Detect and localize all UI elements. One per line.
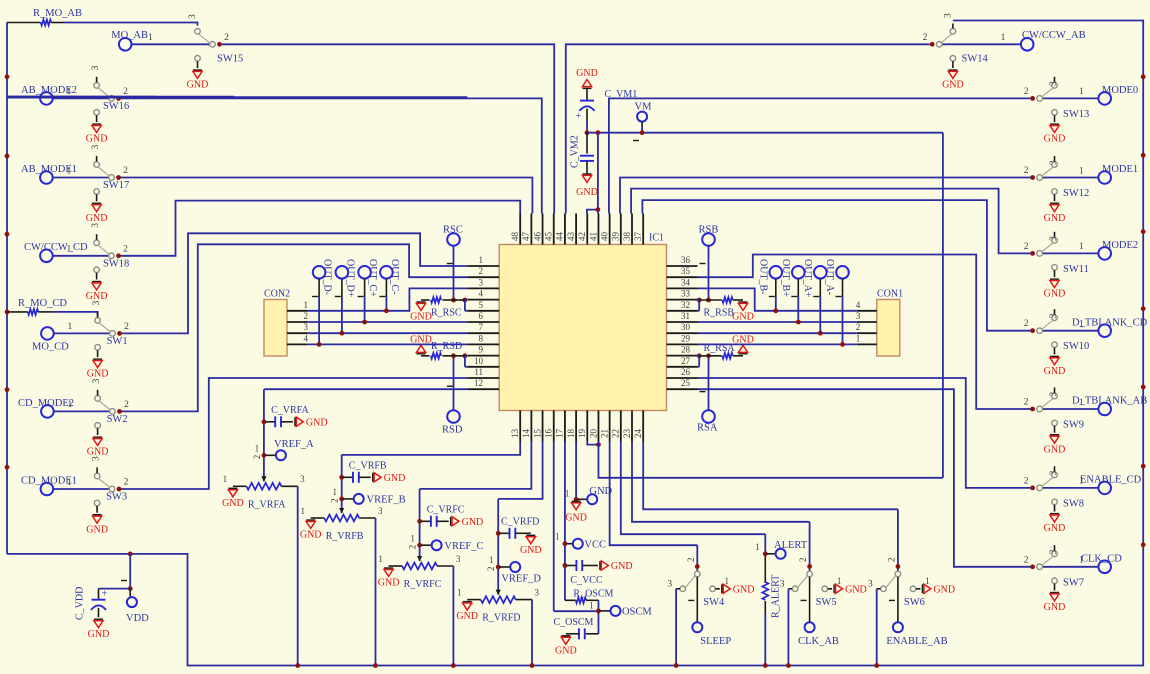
svg-text:D_TBLANK_AB: D_TBLANK_AB: [1072, 396, 1147, 407]
svg-text:1: 1: [489, 555, 494, 565]
svg-text:CON1: CON1: [877, 289, 903, 300]
svg-text:2: 2: [124, 478, 129, 488]
svg-text:VREF_B: VREF_B: [367, 495, 406, 506]
svg-text:1: 1: [755, 542, 760, 552]
svg-text:GND: GND: [576, 68, 598, 79]
svg-text:SW16: SW16: [103, 101, 129, 112]
svg-text:3: 3: [1049, 81, 1059, 86]
svg-text:SW11: SW11: [1063, 264, 1089, 275]
svg-text:2: 2: [123, 87, 128, 97]
svg-text:1: 1: [856, 333, 861, 343]
svg-text:9: 9: [479, 345, 484, 355]
svg-text:GND: GND: [88, 629, 110, 640]
svg-text:3: 3: [91, 65, 101, 70]
svg-text:2: 2: [886, 558, 896, 563]
svg-text:32: 32: [681, 300, 690, 310]
svg-text:1: 1: [565, 489, 570, 499]
svg-text:3: 3: [92, 456, 102, 461]
svg-text:GND: GND: [222, 498, 244, 509]
svg-text:+: +: [102, 588, 108, 599]
svg-text:10: 10: [474, 356, 484, 366]
svg-text:3: 3: [856, 311, 861, 321]
svg-text:2: 2: [304, 311, 309, 321]
svg-text:21: 21: [599, 429, 609, 438]
svg-text:2: 2: [123, 166, 128, 176]
svg-text:GND: GND: [520, 545, 542, 556]
svg-text:GND: GND: [555, 645, 577, 656]
svg-text:30: 30: [681, 322, 691, 332]
svg-text:GND: GND: [845, 584, 867, 595]
svg-text:GND: GND: [1044, 213, 1066, 224]
svg-text:2: 2: [1024, 476, 1029, 486]
svg-text:GND: GND: [87, 369, 109, 380]
svg-text:C_VRFD: C_VRFD: [501, 517, 539, 528]
svg-text:C_VCC: C_VCC: [570, 575, 603, 586]
svg-text:GND: GND: [1044, 366, 1066, 377]
svg-text:41: 41: [588, 232, 598, 241]
svg-text:2: 2: [1024, 87, 1029, 97]
svg-text:C_VM1: C_VM1: [605, 89, 638, 100]
svg-text:1: 1: [1079, 87, 1084, 97]
svg-text:GND: GND: [456, 611, 478, 622]
svg-text:GND: GND: [86, 291, 108, 302]
svg-text:2: 2: [123, 244, 128, 254]
svg-text:OUT_B+: OUT_B+: [780, 259, 791, 297]
svg-text:GND: GND: [87, 447, 109, 458]
svg-text:VM: VM: [635, 101, 653, 112]
svg-text:2: 2: [1024, 166, 1029, 176]
svg-text:R_VRFA: R_VRFA: [248, 499, 286, 510]
svg-text:CW/CCW_CD: CW/CCW_CD: [24, 242, 88, 253]
svg-text:1: 1: [304, 300, 309, 310]
svg-text:SW12: SW12: [1063, 188, 1089, 199]
svg-text:43: 43: [566, 232, 576, 242]
svg-text:3: 3: [1049, 470, 1059, 475]
svg-text:ALERT: ALERT: [774, 540, 808, 551]
svg-text:OUT_A+: OUT_A+: [802, 259, 813, 298]
svg-text:2: 2: [252, 455, 262, 460]
svg-text:GND: GND: [933, 584, 955, 595]
svg-text:SW15: SW15: [217, 54, 243, 65]
svg-text:SW4: SW4: [703, 597, 725, 608]
svg-text:1: 1: [555, 532, 560, 542]
svg-text:1: 1: [1001, 33, 1006, 43]
svg-text:12: 12: [474, 378, 483, 388]
svg-text:CD_MODE1: CD_MODE1: [21, 476, 77, 487]
svg-text:2: 2: [923, 33, 928, 43]
svg-text:SW18: SW18: [103, 258, 129, 269]
svg-text:OSCM: OSCM: [622, 607, 652, 618]
svg-text:R_VRFC: R_VRFC: [404, 579, 442, 590]
svg-text:VREF_D: VREF_D: [501, 574, 541, 585]
svg-text:3: 3: [1049, 313, 1059, 318]
svg-text:1: 1: [223, 474, 228, 484]
svg-text:VDD: VDD: [126, 613, 149, 624]
svg-text:23: 23: [622, 429, 632, 439]
svg-text:OUT_B-: OUT_B-: [757, 259, 768, 295]
svg-text:2: 2: [1024, 319, 1029, 329]
svg-text:3: 3: [534, 587, 539, 597]
svg-text:37: 37: [633, 232, 643, 242]
svg-text:GND: GND: [1044, 134, 1066, 145]
svg-text:GND: GND: [300, 530, 322, 541]
svg-text:1: 1: [410, 533, 415, 543]
svg-text:1: 1: [148, 33, 153, 43]
svg-text:MO_CD: MO_CD: [32, 342, 69, 353]
svg-text:3: 3: [91, 223, 101, 228]
svg-text:27: 27: [681, 356, 691, 366]
svg-text:20: 20: [588, 429, 598, 439]
svg-text:RSC: RSC: [443, 225, 463, 236]
svg-text:GND: GND: [576, 187, 598, 198]
svg-text:31: 31: [681, 311, 690, 321]
svg-text:GND: GND: [378, 578, 400, 589]
svg-text:19: 19: [577, 429, 587, 439]
svg-text:3: 3: [780, 580, 785, 590]
svg-text:SW3: SW3: [106, 492, 127, 503]
svg-text:42: 42: [577, 232, 587, 241]
svg-text:R_VRFB: R_VRFB: [326, 531, 364, 542]
svg-text:1: 1: [255, 444, 260, 454]
svg-text:ENABLE_CD: ENABLE_CD: [1080, 475, 1142, 486]
svg-text:GND: GND: [306, 417, 328, 428]
svg-text:2: 2: [224, 33, 229, 43]
svg-text:SW6: SW6: [904, 597, 925, 608]
svg-text:CD_MODE2: CD_MODE2: [18, 398, 74, 409]
svg-text:3: 3: [1049, 549, 1059, 554]
svg-text:3: 3: [1049, 160, 1059, 165]
svg-text:3: 3: [92, 300, 102, 305]
svg-text:SW17: SW17: [103, 180, 129, 191]
svg-text:AB_MODE1: AB_MODE1: [21, 164, 77, 175]
svg-text:22: 22: [611, 429, 621, 438]
svg-text:OUT_D+: OUT_D+: [344, 259, 355, 298]
svg-text:C_VRFB: C_VRFB: [349, 461, 387, 472]
svg-text:1: 1: [925, 576, 930, 586]
svg-text:1: 1: [1079, 166, 1084, 176]
svg-text:1: 1: [378, 554, 383, 564]
svg-text:VREF_A: VREF_A: [274, 439, 314, 450]
svg-text:MO_AB: MO_AB: [111, 30, 148, 41]
svg-text:2: 2: [1024, 242, 1029, 252]
svg-text:C_VRFA: C_VRFA: [271, 405, 309, 416]
svg-text:SLEEP: SLEEP: [700, 636, 731, 647]
svg-text:R_RSD: R_RSD: [431, 341, 462, 352]
svg-text:2: 2: [330, 498, 340, 503]
svg-text:47: 47: [521, 232, 531, 242]
svg-text:GND: GND: [942, 80, 964, 91]
svg-text:3: 3: [479, 277, 484, 287]
svg-text:3: 3: [1049, 236, 1059, 241]
svg-text:OUT_D-: OUT_D-: [322, 259, 333, 295]
svg-text:GND: GND: [732, 312, 754, 323]
svg-text:SW7: SW7: [1063, 577, 1084, 588]
svg-text:GND: GND: [565, 513, 587, 524]
svg-text:4: 4: [856, 300, 861, 310]
svg-text:GND: GND: [733, 584, 755, 595]
svg-text:1: 1: [725, 576, 730, 586]
svg-text:C_VRFC: C_VRFC: [427, 505, 465, 516]
svg-text:RSB: RSB: [699, 225, 719, 236]
svg-text:3: 3: [300, 474, 305, 484]
svg-text:GND: GND: [1044, 523, 1066, 534]
svg-text:14: 14: [521, 429, 531, 439]
svg-text:13: 13: [510, 429, 520, 439]
svg-text:40: 40: [599, 232, 609, 242]
svg-text:3: 3: [456, 554, 461, 564]
svg-text:1: 1: [479, 255, 484, 265]
svg-text:MODE1: MODE1: [1102, 164, 1138, 175]
svg-text:ENABLE_AB: ENABLE_AB: [886, 636, 947, 647]
svg-text:MODE2: MODE2: [1102, 240, 1138, 251]
svg-text:GND: GND: [384, 473, 406, 484]
svg-text:3: 3: [1049, 392, 1059, 397]
svg-text:2: 2: [798, 558, 808, 563]
svg-text:17: 17: [555, 429, 565, 439]
svg-text:SW1: SW1: [107, 336, 128, 347]
svg-text:SW10: SW10: [1063, 341, 1089, 352]
svg-text:28: 28: [681, 345, 691, 355]
svg-text:SW9: SW9: [1063, 420, 1084, 431]
svg-text:CON2: CON2: [264, 289, 290, 300]
svg-text:1: 1: [837, 576, 842, 586]
svg-text:GND: GND: [86, 134, 108, 145]
svg-text:45: 45: [544, 232, 554, 242]
svg-text:5: 5: [479, 300, 484, 310]
svg-text:SW5: SW5: [816, 597, 837, 608]
svg-text:GND: GND: [1044, 444, 1066, 455]
svg-text:GND: GND: [187, 80, 209, 91]
svg-text:48: 48: [510, 232, 520, 242]
svg-text:44: 44: [555, 232, 565, 242]
svg-text:2: 2: [408, 545, 418, 550]
svg-text:11: 11: [474, 367, 483, 377]
svg-text:GND: GND: [1044, 602, 1066, 613]
svg-text:C_VM2: C_VM2: [570, 135, 581, 168]
svg-text:OUT_C-: OUT_C-: [389, 259, 400, 295]
svg-text:7: 7: [479, 322, 484, 332]
svg-text:1: 1: [300, 506, 305, 516]
svg-text:R_OSCM: R_OSCM: [573, 589, 613, 600]
svg-text:1: 1: [589, 600, 594, 610]
svg-text:SW13: SW13: [1063, 109, 1089, 120]
svg-text:2: 2: [486, 567, 496, 572]
svg-text:46: 46: [532, 232, 542, 242]
svg-text:RSD: RSD: [442, 425, 463, 436]
svg-text:4: 4: [304, 333, 309, 343]
svg-text:24: 24: [633, 429, 643, 439]
svg-text:SW2: SW2: [107, 414, 128, 425]
svg-text:SW8: SW8: [1063, 498, 1084, 509]
svg-text:R_VRFD: R_VRFD: [482, 613, 520, 624]
svg-text:+: +: [576, 111, 582, 122]
svg-text:R_MO_CD: R_MO_CD: [18, 298, 67, 309]
svg-text:CW/CCW_AB: CW/CCW_AB: [1022, 30, 1086, 41]
svg-text:GND: GND: [1044, 289, 1066, 300]
svg-text:3: 3: [304, 322, 309, 332]
svg-text:1: 1: [457, 587, 462, 597]
svg-text:CLK_CD: CLK_CD: [1081, 554, 1122, 565]
svg-text:18: 18: [566, 429, 576, 439]
svg-text:36: 36: [681, 255, 691, 265]
svg-text:33: 33: [681, 289, 691, 299]
svg-text:C_OSCM: C_OSCM: [553, 617, 593, 628]
svg-text:3: 3: [92, 378, 102, 383]
svg-text:R_MO_AB: R_MO_AB: [33, 8, 82, 19]
svg-text:IC1: IC1: [649, 233, 664, 244]
svg-text:GND: GND: [86, 213, 108, 224]
svg-text:VREF_C: VREF_C: [444, 541, 483, 552]
svg-text:OUT_C+: OUT_C+: [367, 259, 378, 297]
svg-text:2: 2: [124, 322, 129, 332]
svg-text:3: 3: [943, 13, 953, 18]
svg-text:AB_MODE2: AB_MODE2: [21, 85, 77, 96]
svg-text:VCC: VCC: [584, 540, 606, 551]
svg-text:GND: GND: [462, 517, 484, 528]
svg-text:3: 3: [667, 580, 672, 590]
svg-text:OUT_A-: OUT_A-: [824, 259, 835, 295]
svg-text:1: 1: [332, 487, 337, 497]
svg-text:R_RSB: R_RSB: [704, 307, 735, 318]
svg-text:29: 29: [681, 333, 691, 343]
svg-text:CLK_AB: CLK_AB: [798, 636, 839, 647]
svg-text:GND: GND: [86, 524, 108, 535]
svg-text:GND: GND: [410, 312, 432, 323]
svg-text:3: 3: [868, 580, 873, 590]
svg-text:2: 2: [686, 558, 696, 563]
svg-text:6: 6: [479, 311, 484, 321]
svg-text:34: 34: [681, 277, 691, 287]
svg-text:38: 38: [622, 232, 632, 242]
svg-text:39: 39: [611, 232, 621, 242]
svg-text:2: 2: [856, 322, 861, 332]
svg-text:C_VDD: C_VDD: [75, 587, 86, 620]
svg-text:15: 15: [532, 429, 542, 439]
svg-text:8: 8: [479, 333, 484, 343]
svg-text:35: 35: [681, 266, 691, 276]
svg-text:4: 4: [479, 289, 484, 299]
svg-text:25: 25: [681, 378, 691, 388]
svg-text:2: 2: [1024, 555, 1029, 565]
svg-text:D_TBLANK_CD: D_TBLANK_CD: [1072, 317, 1148, 328]
svg-text:SW14: SW14: [962, 54, 989, 65]
svg-text:2: 2: [1024, 398, 1029, 408]
svg-text:3: 3: [188, 14, 198, 19]
svg-text:16: 16: [544, 429, 554, 439]
svg-text:3: 3: [91, 145, 101, 150]
svg-text:RSA: RSA: [697, 423, 718, 434]
svg-text:GND: GND: [611, 561, 633, 572]
svg-text:26: 26: [681, 367, 691, 377]
svg-text:1: 1: [68, 322, 73, 332]
svg-text:1: 1: [1079, 242, 1084, 252]
svg-text:2: 2: [124, 400, 129, 410]
svg-text:2: 2: [479, 266, 484, 276]
svg-text:3: 3: [378, 506, 383, 516]
svg-text:R_RSC: R_RSC: [431, 307, 462, 318]
svg-text:MODE0: MODE0: [1102, 85, 1138, 96]
